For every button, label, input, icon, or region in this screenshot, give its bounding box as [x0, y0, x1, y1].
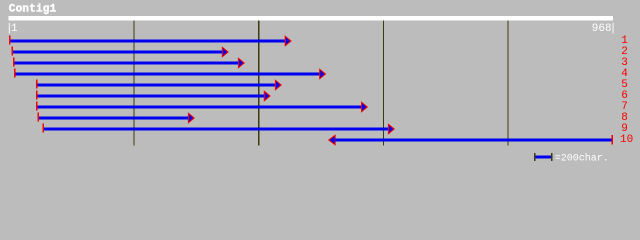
ruler bar	[9, 16, 614, 20]
read 1 start tick	[9, 35, 10, 44]
read number labels	[620, 35, 633, 146]
svg-text:=200char.: =200char.	[555, 152, 609, 164]
read 5 arrowhead	[275, 79, 282, 90]
legend left tick	[534, 153, 535, 161]
svg-text:|: |	[610, 23, 617, 35]
read 8 line	[39, 117, 189, 120]
read 9 arrowhead	[388, 123, 395, 134]
read 7 start tick	[36, 101, 37, 110]
read 10 arrowhead (points left, reverse read)	[328, 134, 336, 145]
grid line 3	[383, 21, 384, 146]
read 3 arrowhead	[238, 57, 245, 68]
svg-text:968: 968	[592, 23, 612, 35]
read 8 start tick	[38, 112, 39, 121]
read 10 line	[335, 139, 611, 142]
grid line 2	[258, 21, 259, 146]
read 4 arrowhead	[319, 68, 326, 79]
read 6 line	[38, 95, 265, 98]
read 4 start tick	[14, 68, 15, 77]
svg-text:10: 10	[620, 134, 633, 146]
read 1 line	[10, 40, 286, 43]
read 7 line	[38, 106, 363, 109]
read 2 start tick	[12, 46, 13, 55]
legend scale line	[535, 156, 551, 159]
grid line 4	[507, 21, 508, 146]
read 10 end tick	[612, 135, 613, 145]
read 9 line	[44, 128, 389, 131]
svg-text:1: 1	[11, 23, 18, 35]
read 7 arrowhead	[361, 101, 368, 112]
grid line 1	[134, 21, 135, 146]
legend right tick	[551, 153, 552, 161]
read 2 line	[13, 51, 223, 54]
ruler label 968|	[592, 23, 617, 35]
read 5 start tick	[36, 79, 37, 88]
svg-text:Contig1: Contig1	[9, 4, 57, 16]
read 3 start tick	[13, 57, 14, 66]
read 2 arrowhead	[222, 46, 229, 57]
read 9 start tick	[43, 123, 44, 132]
read 3 line	[15, 62, 240, 65]
read 8 arrowhead	[188, 112, 195, 123]
read 1 arrowhead	[285, 35, 292, 46]
read 5 line	[38, 84, 277, 87]
read 6 start tick	[36, 90, 37, 99]
read 6 arrowhead	[264, 90, 271, 101]
ruler label |1	[6, 23, 18, 35]
read 4 line	[16, 73, 321, 76]
